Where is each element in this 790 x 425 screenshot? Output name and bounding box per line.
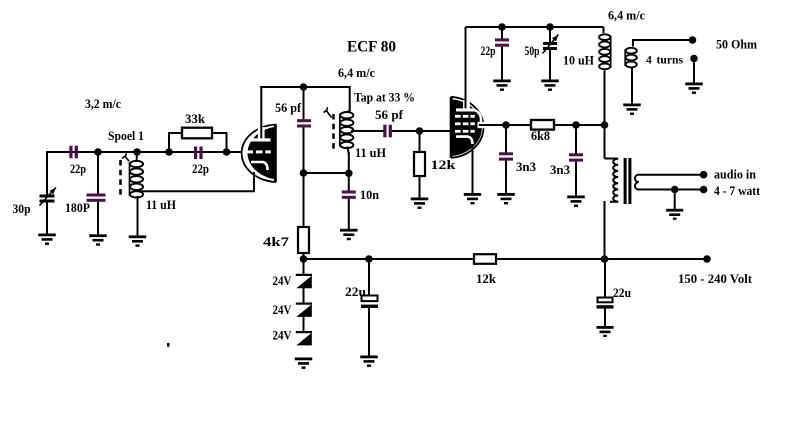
svg-text:22u: 22u xyxy=(345,284,366,299)
resistor R 4k7 xyxy=(298,173,309,260)
label 30p xyxy=(13,201,31,216)
label audio in xyxy=(714,167,757,182)
svg-text:4k7: 4k7 xyxy=(263,234,290,249)
svg-text:50 Ohm: 50 Ohm xyxy=(716,37,757,52)
label 11 uH #2 xyxy=(355,145,386,160)
terminal dot 50 Ohm top xyxy=(689,36,697,44)
svg-text:22p: 22p xyxy=(192,161,209,176)
svg-text:ECF 80: ECF 80 xyxy=(347,39,396,56)
label 180P xyxy=(65,200,90,215)
capacitor C 10n xyxy=(342,173,356,230)
label 50 Ohm xyxy=(716,37,757,52)
svg-text:30p: 30p xyxy=(13,201,31,216)
wire 33k branch left up xyxy=(168,132,183,152)
terminal dot 150-240V xyxy=(703,255,711,263)
label 56 pf #1 xyxy=(275,100,302,115)
wire 56pf to lower node xyxy=(303,128,305,174)
svg-text:180P: 180P xyxy=(65,200,90,215)
ground below link coil xyxy=(623,104,641,115)
svg-text:3n3: 3n3 xyxy=(516,159,536,174)
svg-text:22p: 22p xyxy=(481,44,496,58)
node E plate bus dot xyxy=(300,83,308,91)
adjustable core dashed line L1 xyxy=(119,160,122,196)
wire plate to 6k8 xyxy=(506,124,532,126)
variable capacitor C 50p xyxy=(543,27,559,81)
label Spoel 1 xyxy=(108,128,144,143)
capacitor C 22p #1 xyxy=(69,146,78,159)
wire left branch down to 30p xyxy=(46,152,48,196)
label 24V #3 xyxy=(273,328,293,343)
adjustable core arrow L1 xyxy=(122,153,129,161)
node M dot 50p xyxy=(546,23,554,31)
label 24V #1 xyxy=(273,273,293,288)
terminal dot 50 Ohm bottom xyxy=(690,55,698,63)
label 4k7 xyxy=(263,234,290,249)
vacuum tube V2 ECF80 pentode section xyxy=(450,27,487,158)
wire secondary top lead xyxy=(637,174,704,176)
label 6,4 m/c #1 xyxy=(338,65,375,80)
wire lower node horizontal xyxy=(304,172,349,174)
svg-text:4 turns: 4 turns xyxy=(646,53,683,67)
wire grid bus y=152 xyxy=(46,151,241,153)
label 22p #1 xyxy=(70,161,86,176)
label ECF 80 xyxy=(347,39,396,56)
wire supply rail xyxy=(304,258,708,260)
resistor R 12k #2 xyxy=(474,254,496,264)
node C junction dot 33k left xyxy=(165,148,173,156)
svg-text:24V: 24V xyxy=(273,302,293,317)
inductor L2 11 uH tapped xyxy=(340,112,354,173)
ground below zeners xyxy=(295,358,313,369)
svg-text:audio in: audio in xyxy=(714,167,757,182)
label 50p xyxy=(525,44,540,58)
zener diode D1 24V xyxy=(296,259,312,288)
svg-text:10n: 10n xyxy=(360,187,380,202)
transformer T1 primary winding xyxy=(605,159,619,202)
wire secondary bottom lead xyxy=(637,189,704,191)
wire 180P to ground xyxy=(97,202,99,235)
zener diode D3 24V xyxy=(296,317,312,346)
capacitor C 22u #2 xyxy=(597,259,614,327)
adjustable core arrow L2 xyxy=(324,107,332,117)
wire 30p to ground xyxy=(46,203,48,235)
label 10 uH xyxy=(563,53,594,68)
ground below 30p xyxy=(38,234,56,245)
svg-text:12k: 12k xyxy=(431,157,457,172)
node D junction dot grid xyxy=(223,148,231,156)
svg-text:22u: 22u xyxy=(613,285,631,300)
svg-text:Spoel 1: Spoel 1 xyxy=(108,128,144,143)
ground below 22p #3 xyxy=(493,80,511,91)
label 22u #1 xyxy=(345,284,366,299)
transformer T1 core xyxy=(624,158,632,204)
label 4 turns xyxy=(646,53,683,67)
wire cathode feedback tap xyxy=(139,190,255,192)
label 24V #2 xyxy=(273,302,293,317)
label 11 uH #1 xyxy=(146,197,176,212)
ground below pentode cathode xyxy=(464,193,482,204)
ground below 12k #1 xyxy=(411,198,429,209)
node G dot right xyxy=(345,170,353,178)
wire transformer primary to rail xyxy=(604,201,606,260)
label 4 - 7 watt xyxy=(714,183,761,198)
ground below 50p xyxy=(541,80,559,91)
wire 10uH to transformer xyxy=(604,125,606,159)
capacitor C 22p #2 xyxy=(194,147,203,160)
capacitor C 3n3 #2 xyxy=(569,125,583,197)
svg-text:Tap at 33 %: Tap at 33 % xyxy=(354,90,415,105)
node B junction dot Spoel1 top xyxy=(133,148,141,156)
capacitor C 22u #1 xyxy=(361,259,378,357)
wire top HT rail xyxy=(466,26,604,28)
ground below Spoel 1 xyxy=(129,235,147,246)
label 22p #3 xyxy=(481,44,496,58)
node N dot plate xyxy=(502,121,510,129)
node P dot 10uH bottom xyxy=(601,121,609,129)
svg-text:3,2 m/c: 3,2 m/c xyxy=(85,96,121,111)
node F dot left xyxy=(300,169,308,177)
label 22u #2 xyxy=(613,285,631,300)
svg-text:50p: 50p xyxy=(525,44,540,58)
svg-text:24V: 24V xyxy=(273,328,293,343)
svg-text:4 - 7 watt: 4 - 7 watt xyxy=(714,183,761,198)
label 56 pf #2 xyxy=(375,107,404,122)
svg-text:24V: 24V xyxy=(273,273,293,288)
transformer T1 secondary winding xyxy=(635,175,639,190)
wire secondary to ground xyxy=(674,190,676,210)
svg-text:11 uH: 11 uH xyxy=(355,145,386,160)
terminal dot audio in bottom xyxy=(700,186,708,194)
svg-text:12k: 12k xyxy=(476,271,497,286)
wire pentode cathode to ground xyxy=(472,144,474,194)
node I rail dot 4k7 xyxy=(300,255,308,263)
wire L2 top lead xyxy=(346,87,350,113)
svg-text:56 pf: 56 pf xyxy=(275,100,302,115)
label Tap at 33 % xyxy=(354,90,415,105)
label 10n xyxy=(360,187,380,202)
wire 33k branch right down xyxy=(211,132,228,152)
label 6,4 m/c #2 xyxy=(608,8,645,23)
capacitor C 56pf #1 top lead xyxy=(303,87,305,120)
resistor R 6k8 xyxy=(531,120,554,130)
inductor L3 10 uH xyxy=(599,27,611,125)
label 150 - 240 Volt xyxy=(678,271,753,286)
ground below 3n3 #1 xyxy=(497,193,515,204)
node K rail dot right xyxy=(601,255,609,263)
svg-text:11 uH: 11 uH xyxy=(146,197,176,212)
label 3n3 #1 xyxy=(516,159,536,174)
wire tap to 56pf #2 xyxy=(351,130,385,132)
svg-text:22p: 22p xyxy=(70,161,86,176)
ground below 10n xyxy=(340,229,358,240)
zener diode D2 24V xyxy=(296,288,312,317)
svg-text:150 - 240 Volt: 150 - 240 Volt xyxy=(678,271,753,286)
svg-text:56 pf: 56 pf xyxy=(375,107,404,122)
ground below 50 Ohm return xyxy=(685,83,703,94)
label 12k #1 xyxy=(431,157,457,172)
wire terminal to ground xyxy=(693,59,695,84)
wire 6k8 to node xyxy=(553,124,605,126)
label 6k8 xyxy=(531,128,550,143)
resistor R 12k #1 xyxy=(414,131,425,198)
wire cathode riser to triode xyxy=(253,172,255,192)
ground below 3n3 #2 xyxy=(567,196,585,207)
capacitor C 3n3 #1 xyxy=(499,125,513,194)
label 33k xyxy=(185,111,206,126)
capacitor C 22p #3 xyxy=(495,27,509,81)
svg-text:6,4 m/c: 6,4 m/c xyxy=(338,65,375,80)
ground below 180P xyxy=(89,234,107,245)
node L dot 22p3 xyxy=(498,23,506,31)
stray mark xyxy=(167,343,170,349)
svg-text:6,4 m/c: 6,4 m/c xyxy=(608,8,645,23)
node Q dot secondary ground xyxy=(671,186,679,194)
ground below 22u #2 xyxy=(597,326,614,337)
label 3,2 m/c xyxy=(85,96,121,111)
adjustable core dashed line L2 xyxy=(332,114,335,149)
svg-text:3n3: 3n3 xyxy=(550,162,570,177)
svg-text:6k8: 6k8 xyxy=(531,128,550,143)
resistor R 33k xyxy=(182,128,212,139)
capacitor C 56pf #2 xyxy=(383,125,392,138)
terminal dot audio in top xyxy=(700,171,708,179)
wire pentode plate exit xyxy=(479,124,506,126)
inductor L4 4 turns xyxy=(625,41,637,105)
wire triode plate top bus xyxy=(260,86,350,88)
capacitor C 56pf #1 xyxy=(297,119,311,127)
capacitor C 180P xyxy=(87,194,106,202)
variable capacitor C 30p xyxy=(40,188,57,206)
wire 180P branch xyxy=(97,152,99,194)
node A junction dot xyxy=(94,148,102,156)
svg-text:33k: 33k xyxy=(185,111,206,126)
inductor L1 Spoel 1 11 uH xyxy=(130,152,144,236)
node H dot 12k top xyxy=(416,127,424,135)
node O dot 3n3 #2 xyxy=(572,121,580,129)
ground below 22u #1 xyxy=(360,356,378,367)
ground below secondary xyxy=(666,209,683,220)
node J rail dot 22u xyxy=(365,255,373,263)
label 3n3 #2 xyxy=(550,162,570,177)
vacuum tube V1 ECF80 triode section xyxy=(242,87,277,182)
label 12k #2 xyxy=(476,271,497,286)
wire link top to terminal xyxy=(632,39,694,41)
svg-text:10 uH: 10 uH xyxy=(563,53,594,68)
wire 56pf2 to pentode grid xyxy=(392,130,452,132)
label 22p #2 xyxy=(192,161,209,176)
